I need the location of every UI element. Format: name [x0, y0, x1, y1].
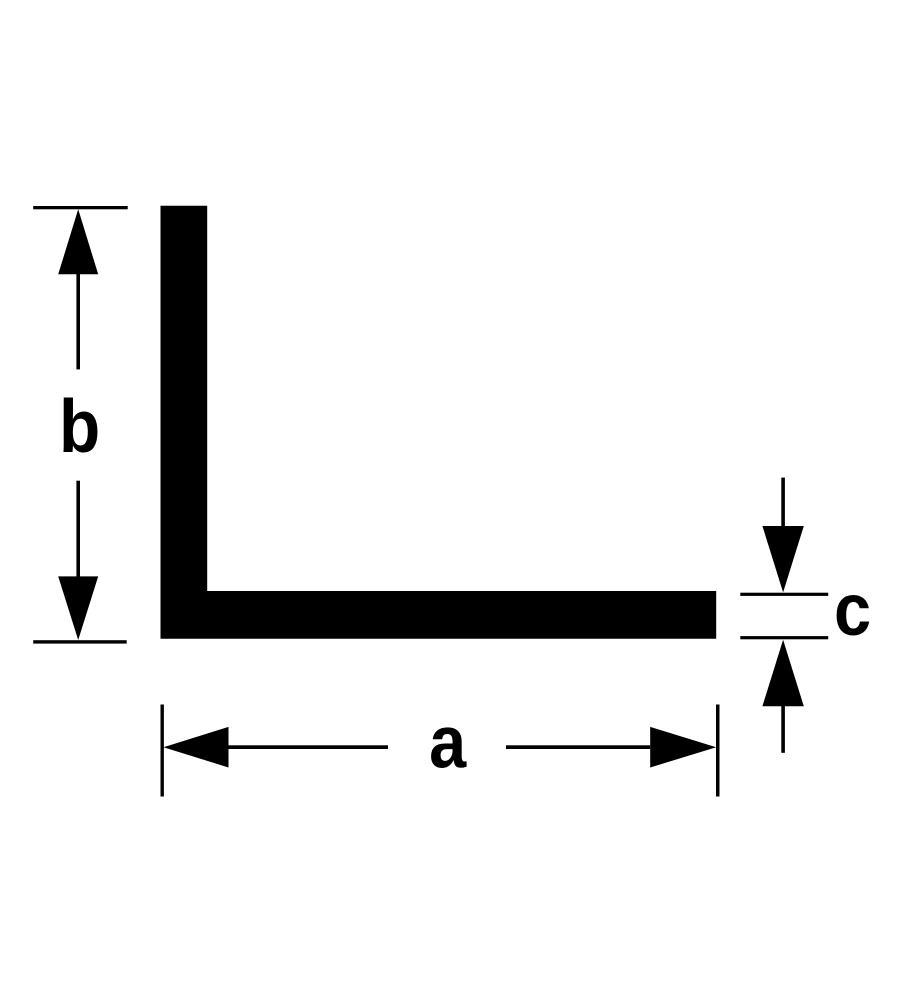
- svg-text:a: a: [429, 700, 467, 783]
- svg-text:b: b: [59, 385, 100, 469]
- svg-text:c: c: [834, 568, 871, 651]
